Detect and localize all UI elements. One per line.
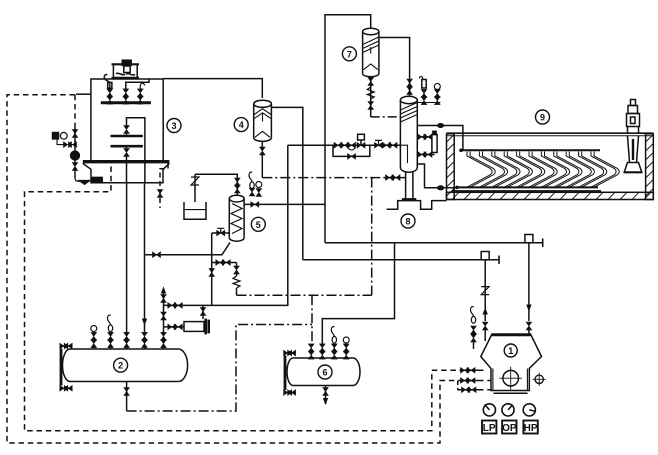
V5 bottom drain diagonal xyxy=(145,243,231,258)
vessel V7 shell (oil separator) xyxy=(363,28,379,77)
spray header bar xyxy=(101,101,151,104)
relief leg with spring xyxy=(233,263,240,296)
tank T9 left wall hatched xyxy=(447,134,455,200)
coil top header xyxy=(459,149,600,153)
LP control valve pair xyxy=(460,368,479,374)
basin heater block xyxy=(92,177,103,182)
internal U pipe V3 xyxy=(127,118,145,183)
hot gas dash-dot header xyxy=(237,294,372,296)
gooseneck vent V3 xyxy=(104,75,112,91)
feed valve on pump column xyxy=(72,128,78,145)
outer safety dashed loop xyxy=(7,95,460,443)
gauge OP xyxy=(502,404,514,416)
V5 top gauge xyxy=(256,182,262,197)
compressor discharge drop xyxy=(526,243,532,336)
V5 side tap with globe valve xyxy=(212,228,230,236)
label 5 xyxy=(251,217,265,231)
suction header xyxy=(303,256,499,265)
discharge header xyxy=(325,239,543,248)
V4 drain valve xyxy=(260,141,266,178)
float valve xyxy=(80,181,90,185)
spray nozzle valve a xyxy=(107,89,113,104)
compressor C1 body xyxy=(481,334,542,393)
V2 level gauge column xyxy=(60,343,72,391)
compressor suction drop with break xyxy=(481,260,489,341)
V8 level gauge loop xyxy=(417,131,437,157)
V6 nozzle 3 swan instrument xyxy=(331,327,337,359)
train control valve with actuator xyxy=(357,134,365,148)
svg-text:1: 1 xyxy=(508,346,513,356)
drain header valve pair xyxy=(385,175,401,181)
vessel V2 shell (receiver) xyxy=(63,349,188,382)
V4 bottom cone xyxy=(255,131,270,137)
vessel V3 shell (evaporative condenser) xyxy=(91,79,163,160)
train globe valve xyxy=(375,140,383,148)
downcomer pipe A from V3 xyxy=(126,183,128,334)
discharge riser flange box xyxy=(525,235,533,243)
OP control valve pair xyxy=(460,378,479,384)
V8 top gauge line xyxy=(416,102,441,104)
discharge riser long vertical xyxy=(325,15,371,243)
V8 internal dip pipe xyxy=(400,145,407,163)
downcomer pipe B from V3 xyxy=(142,183,147,334)
oil still body xyxy=(184,319,209,335)
suction riser flange box xyxy=(481,252,489,260)
HP control valve pair xyxy=(461,387,479,393)
train check valve pair xyxy=(334,142,349,148)
V2 bottom drain valve xyxy=(124,382,130,412)
svg-text:8: 8 xyxy=(405,217,410,227)
drain pan dashed loop xyxy=(25,167,460,431)
agitator bell xyxy=(624,163,642,173)
pump suction elbow to float xyxy=(75,178,80,182)
equalizer stub with valve pair xyxy=(212,260,237,266)
V2 nozzle 4 valves xyxy=(142,332,148,349)
V5 vapor line to discharge riser xyxy=(244,202,325,208)
HP branch jog dashed xyxy=(458,381,461,390)
dash-dot branch down to hot-gas line xyxy=(371,178,373,296)
oil drain dash-dot into V8 xyxy=(371,116,401,118)
svg-text:6: 6 xyxy=(322,368,327,378)
svg-text:2: 2 xyxy=(118,361,123,371)
svg-text:HP: HP xyxy=(524,423,538,434)
tank T9 bottom hatched band xyxy=(447,192,654,199)
V6 bottom drain with arrow xyxy=(323,386,329,406)
HP label box xyxy=(523,421,537,434)
spray nozzle valve b with riser xyxy=(123,79,149,104)
liquid feed valve train header xyxy=(288,144,401,146)
vessel V8 shell (oil receiver column) xyxy=(400,96,417,172)
agitator shaft housing xyxy=(628,136,639,163)
fan motor on V3 roof xyxy=(112,60,140,78)
V8 support stand xyxy=(387,201,447,210)
V5 top feed line with double valve xyxy=(195,174,240,195)
makeup water stub into V3 xyxy=(76,93,91,95)
svg-text:OP: OP xyxy=(502,423,517,434)
label 6 xyxy=(318,365,332,379)
label 1 xyxy=(504,344,517,357)
vapor line V3 to V4 xyxy=(163,79,262,98)
drain stub with valve on liquid header xyxy=(200,305,206,319)
V5 liquid drop pipe xyxy=(209,233,215,305)
svg-text:9: 9 xyxy=(540,113,545,123)
V5 top swan instrument xyxy=(249,172,255,196)
label 8 xyxy=(401,214,415,228)
V5 coil zigzag xyxy=(231,204,242,234)
V8 pressure gauge with valves xyxy=(434,84,440,105)
V2 nozzle 2 swan instrument xyxy=(108,315,114,349)
open expansion tank xyxy=(184,202,206,219)
label 7 xyxy=(342,47,356,61)
V6 nozzle 2 valves xyxy=(320,344,326,359)
V6 level gauge column xyxy=(284,350,296,395)
LP label box xyxy=(482,421,496,434)
spray nozzle valve c with hook xyxy=(138,83,145,104)
compressor gauge tap swan xyxy=(471,307,477,349)
V8 thermowell with valves xyxy=(420,77,427,105)
svg-text:7: 7 xyxy=(347,49,352,59)
instrument link line xyxy=(57,139,77,148)
vessel V5 shell (intercooler) xyxy=(229,195,244,241)
V2 nozzle 3 valves xyxy=(124,332,130,349)
V2 nozzle 1 gauge xyxy=(91,326,97,350)
compressor flywheel xyxy=(499,367,522,390)
label 3 xyxy=(167,119,181,133)
V7 chevron internals xyxy=(363,37,379,54)
distributor plate 1 xyxy=(111,135,143,138)
vessel V6 shell (oil drum) xyxy=(287,358,360,386)
train bypass loop with valve xyxy=(333,145,370,159)
svg-text:LP: LP xyxy=(483,423,496,434)
oil return dash-dot V2 to V6 xyxy=(127,325,312,412)
V6 nozzle 1 valves xyxy=(308,344,314,359)
basin drain dashed with valve xyxy=(160,164,168,209)
label 2 xyxy=(114,358,128,372)
distributor plate 2 xyxy=(111,145,143,148)
gauge LP xyxy=(483,404,495,416)
V6 condensate line from V8 drop xyxy=(322,243,394,346)
water leg with break symbol xyxy=(191,174,199,202)
train strainer xyxy=(348,142,356,150)
internal pipe valve upper xyxy=(124,124,130,135)
vent riser above V2 xyxy=(161,287,167,334)
shaft end circle xyxy=(533,373,546,386)
tank T9 right wall hatched xyxy=(646,134,654,200)
V2 nozzle 5 valves xyxy=(161,332,167,349)
svg-text:5: 5 xyxy=(256,220,261,230)
water pump instrument square xyxy=(53,132,68,139)
label 9 xyxy=(536,110,550,124)
label 4 xyxy=(234,118,248,132)
V6 nozzle 4 gauge xyxy=(343,337,349,359)
V7 oil drain with spring valves xyxy=(367,77,374,117)
V4 vapor outlet to suction drop xyxy=(271,107,302,259)
internal pipe valve lower xyxy=(124,148,130,183)
svg-text:4: 4 xyxy=(239,120,244,130)
branch dash-dot down to V6 xyxy=(311,295,313,346)
V8 liquid feed to coil bottom xyxy=(417,164,457,190)
drain header dash-dot to V8 leg xyxy=(262,177,406,179)
svg-text:3: 3 xyxy=(171,121,176,131)
pump outlet valve xyxy=(72,160,78,178)
liquid header to receiver xyxy=(164,145,288,308)
gauge HP xyxy=(523,404,535,416)
V8 leg xyxy=(402,171,416,199)
vessel V4 shell xyxy=(254,100,272,141)
train outlet valve pair xyxy=(383,142,398,148)
coil bottom header xyxy=(452,186,601,194)
V7 bottom cone xyxy=(364,64,378,70)
tank T9 top rim xyxy=(447,133,654,136)
V8 vapor line into tank coil top xyxy=(417,124,463,151)
V3 basin skirt xyxy=(91,169,163,183)
oil still branch with valve pair xyxy=(164,324,185,330)
agitator motor xyxy=(627,100,640,134)
V7 outlet to V8 with valves xyxy=(379,38,413,97)
V8 hatch band xyxy=(400,103,417,123)
V3 basin flange xyxy=(83,162,170,170)
circulating pump ball xyxy=(71,145,80,160)
OP label box xyxy=(502,421,517,434)
pump column dashed drop xyxy=(74,95,76,129)
evaporator coil serpentine xyxy=(467,152,619,188)
V4 mist eliminator chevrons xyxy=(254,109,271,122)
